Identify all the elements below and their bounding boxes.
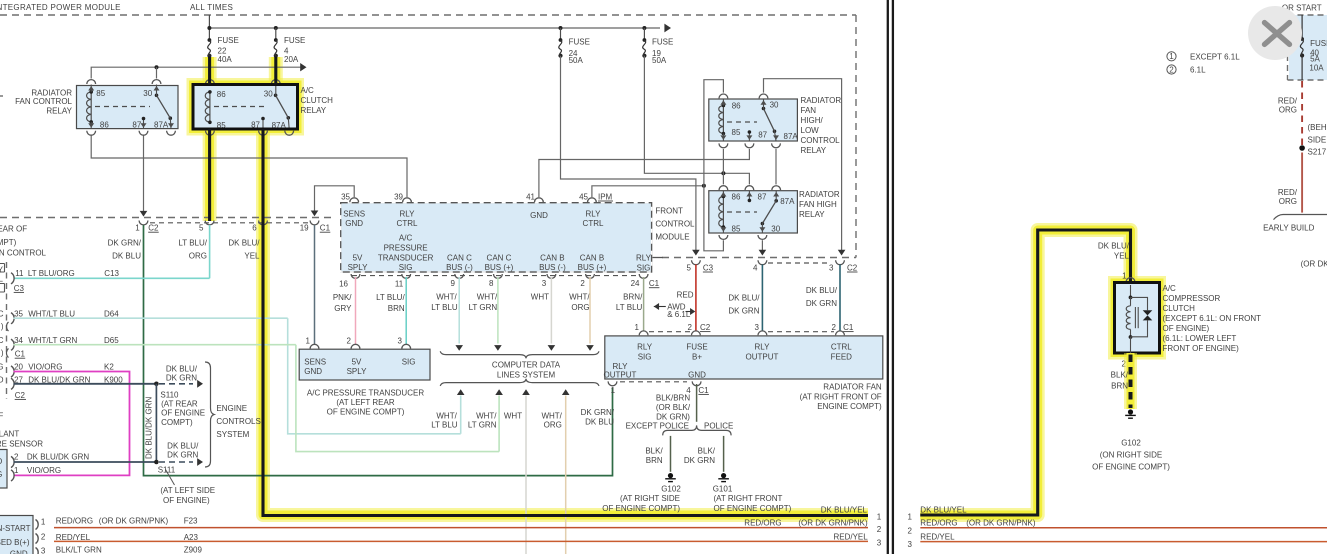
svg-text:GND: GND [345,219,363,228]
svg-text:LT BLU: LT BLU [431,303,458,312]
svg-text:SYSTEM: SYSTEM [216,430,249,439]
svg-text:N CONTROL: N CONTROL [0,249,47,258]
svg-text:87A: 87A [780,197,795,206]
svg-text:WHT/LT GRN: WHT/LT GRN [28,336,77,345]
svg-text:40A: 40A [218,55,233,64]
svg-text:RLY: RLY [400,209,416,218]
svg-text:(AT REAR: (AT REAR [161,400,198,409]
svg-text:RADIATOR: RADIATOR [801,96,842,105]
svg-text:WHT/: WHT/ [569,293,590,302]
svg-text:G102: G102 [661,484,681,493]
svg-text:RED/ORG: RED/ORG [920,519,957,528]
svg-text:11: 11 [395,280,404,289]
svg-text:PNK/: PNK/ [333,293,352,302]
svg-text:30: 30 [143,89,152,98]
svg-text:D65: D65 [104,336,119,345]
svg-text:3: 3 [908,540,913,549]
svg-text:C1: C1 [698,386,709,395]
svg-text:WHT/: WHT/ [476,412,497,421]
svg-text:GND: GND [10,550,28,554]
svg-text:C2: C2 [148,224,159,233]
svg-text:INTEGRATED POWER MODULE: INTEGRATED POWER MODULE [0,3,121,12]
svg-text:C1: C1 [649,279,660,288]
svg-text:1: 1 [14,466,19,475]
svg-text:3: 3 [41,547,46,554]
svg-text:BUS (+): BUS (+) [578,263,607,272]
svg-text:6.1L: 6.1L [1190,66,1206,75]
svg-text:2: 2 [41,533,46,542]
svg-text:DK GRN: DK GRN [806,299,837,308]
svg-text:RED/ORG: RED/ORG [744,519,781,528]
svg-text:35: 35 [341,192,350,201]
svg-text:35: 35 [14,309,23,318]
svg-text:RLY: RLY [755,342,771,351]
svg-text:16: 16 [339,280,348,289]
svg-text:8: 8 [489,279,494,288]
svg-text:LINES SYSTEM: LINES SYSTEM [497,370,556,379]
svg-text:LANT: LANT [0,429,19,438]
svg-text:RLY: RLY [637,342,653,351]
svg-text:OUTPUT: OUTPUT [746,352,779,361]
svg-text:DK BLU/DK GRN: DK BLU/DK GRN [27,452,89,461]
svg-text:COMPUTER DATA: COMPUTER DATA [492,360,561,369]
svg-text:EXCEPT 6.1L: EXCEPT 6.1L [1190,53,1240,62]
svg-text:87A: 87A [154,121,169,130]
svg-text:1: 1 [306,337,311,346]
svg-text:DK BLU/: DK BLU/ [806,286,838,295]
svg-text:LT BLU/: LT BLU/ [376,293,405,302]
svg-text:GND: GND [530,211,548,220]
svg-text:DK BLU/YEL: DK BLU/YEL [920,506,967,515]
svg-text:LOW: LOW [801,126,820,135]
svg-text:86: 86 [217,90,226,99]
svg-text:WHT/: WHT/ [436,412,457,421]
svg-text:CONTROL: CONTROL [801,136,841,145]
svg-text:LT BLU/: LT BLU/ [178,239,207,248]
svg-text:RELAY: RELAY [46,107,72,116]
svg-text:C2: C2 [847,263,858,272]
svg-text:RED/: RED/ [1278,97,1298,106]
svg-text:CAN B: CAN B [540,253,564,262]
svg-text:(AT RIGHT SIDE: (AT RIGHT SIDE [620,494,680,503]
svg-text:BRN: BRN [646,456,663,465]
svg-text:RELAY: RELAY [301,106,327,115]
svg-text:(BEHIND: (BEHIND [1308,123,1327,132]
svg-text:DK BLU: DK BLU [585,417,614,426]
svg-text:FRONT: FRONT [655,207,683,216]
svg-text:SENS: SENS [304,357,326,366]
svg-text:GND: GND [304,367,322,376]
svg-text:SPLY: SPLY [348,263,369,272]
svg-text:20A: 20A [284,55,299,64]
svg-text:WHT/: WHT/ [541,412,562,421]
svg-text:COMPRESSOR: COMPRESSOR [1163,294,1221,303]
svg-text:BLK/BRN: BLK/BRN [656,394,690,403]
svg-text:RED/: RED/ [1278,188,1298,197]
svg-text:2: 2 [347,337,352,346]
svg-text:CTRL: CTRL [397,219,418,228]
svg-text:GRY: GRY [334,304,352,313]
svg-text:BRN/: BRN/ [623,293,643,302]
svg-text:CLUTCH: CLUTCH [301,96,334,105]
svg-text:DK BLU/: DK BLU/ [728,294,760,303]
svg-text:S110: S110 [160,391,179,400]
svg-text:G102: G102 [1121,438,1141,447]
svg-text:FUSE: FUSE [569,38,590,47]
svg-text:ORG: ORG [571,303,589,312]
svg-text:K2: K2 [104,362,114,371]
svg-text:VIO/ORG: VIO/ORG [28,362,62,371]
svg-text:BUS (-): BUS (-) [446,263,473,272]
svg-text:CAN C: CAN C [487,253,512,262]
svg-text:G: G [0,470,2,479]
svg-text:SIG: SIG [399,263,413,272]
svg-text:FUSE: FUSE [1310,39,1327,48]
svg-text:1: 1 [908,513,913,522]
svg-text:DK GRN): DK GRN) [656,413,690,422]
svg-text:C2: C2 [700,323,711,332]
svg-text:ENGINE COMPT): ENGINE COMPT) [817,402,882,411]
svg-text:1: 1 [1169,52,1174,61]
svg-text:B+: B+ [692,352,702,361]
svg-text:FAN HIGH: FAN HIGH [799,200,837,209]
svg-text:DK BLU/: DK BLU/ [167,442,199,451]
svg-text:WHT/: WHT/ [436,293,457,302]
svg-text:LT BLU: LT BLU [616,303,643,312]
svg-text:A23: A23 [184,533,199,542]
svg-text:LT BLU/ORG: LT BLU/ORG [28,269,75,278]
svg-text:45: 45 [579,192,588,201]
svg-text:11: 11 [15,269,24,278]
svg-text:C1: C1 [843,323,854,332]
svg-text:87A: 87A [784,132,799,141]
svg-text:RE SENSOR: RE SENSOR [0,439,43,448]
svg-text:SENS: SENS [343,209,365,218]
svg-text:30: 30 [770,101,779,110]
svg-text:34: 34 [14,336,23,345]
svg-text:86: 86 [100,121,109,130]
svg-text:10A: 10A [1309,64,1324,73]
svg-text:RED/YEL: RED/YEL [920,533,955,542]
svg-text:Z909: Z909 [184,545,203,554]
svg-text:DK BLU/YEL: DK BLU/YEL [821,505,868,514]
svg-text:19: 19 [300,224,309,233]
svg-text:BLK/: BLK/ [1111,371,1129,380]
svg-text:RLY: RLY [586,209,602,218]
svg-text:5V: 5V [353,253,363,262]
svg-text:BLK/: BLK/ [698,447,716,456]
svg-text:LT BLU: LT BLU [431,421,458,430]
svg-text:RADIATOR FAN: RADIATOR FAN [823,383,882,392]
svg-text:POLICE: POLICE [704,422,733,431]
svg-text:ENGINE: ENGINE [216,404,247,413]
svg-text:CAN B: CAN B [580,253,604,262]
svg-text:(AT RIGHT FRONT: (AT RIGHT FRONT [714,494,783,503]
svg-text:RLY: RLY [636,253,652,262]
svg-text:2: 2 [908,526,913,535]
svg-text:D: D [0,457,3,466]
svg-text:RED/ORG: RED/ORG [56,517,93,526]
svg-text:(AT RIGHT FRONT OF: (AT RIGHT FRONT OF [800,393,882,402]
svg-text:): ) [1,349,4,358]
svg-text:2: 2 [877,525,882,534]
svg-text:3: 3 [542,279,547,288]
svg-text:C1: C1 [320,224,331,233]
svg-text:A/C: A/C [301,86,315,95]
svg-text:ALL TIMES: ALL TIMES [190,3,233,12]
svg-text:(OR DK GRN/PNK): (OR DK GRN/PNK) [99,517,169,526]
svg-text:RELAY: RELAY [799,210,825,219]
svg-text:DK GRN/: DK GRN/ [108,239,142,248]
svg-text:FUSE: FUSE [686,342,707,351]
svg-text:(AT LEFT SIDE: (AT LEFT SIDE [160,486,215,495]
svg-text:BUS (+): BUS (+) [485,263,514,272]
svg-text:DK GRN: DK GRN [166,373,197,382]
svg-text:30: 30 [771,224,780,233]
svg-text:DK GRN: DK GRN [728,307,759,316]
svg-text:ORG: ORG [1279,106,1297,115]
svg-text:5V: 5V [352,357,362,366]
svg-text:DK BLU/: DK BLU/ [166,364,198,373]
svg-text:87: 87 [132,121,141,130]
svg-text:C1: C1 [15,350,26,359]
svg-text:3: 3 [829,263,834,272]
svg-text:DK BLU: DK BLU [112,252,141,261]
svg-text:N-START: N-START [0,524,31,533]
svg-text:OF ENGINE COMPT): OF ENGINE COMPT) [602,504,680,513]
svg-text:FUSE: FUSE [218,36,239,45]
svg-text:(ON RIGHT SIDE: (ON RIGHT SIDE [1100,451,1163,460]
svg-text:DK GRN/: DK GRN/ [581,408,615,417]
svg-text:FRONT OF ENGINE): FRONT OF ENGINE) [1163,344,1240,353]
svg-text:CONTROL: CONTROL [655,220,695,229]
svg-text:CTRL: CTRL [831,342,852,351]
svg-text:4: 4 [753,263,758,272]
svg-text:20: 20 [14,362,23,371]
svg-text:HIGH/: HIGH/ [801,116,824,125]
svg-text:RADIATOR: RADIATOR [799,190,840,199]
svg-text:(OR DK GRN/PNK): (OR DK GRN/PNK) [798,519,868,528]
svg-text:ORG: ORG [544,421,562,430]
svg-text:(OR DK GRN/PNK): (OR DK GRN/PNK) [1301,260,1327,269]
svg-text:D64: D64 [104,309,119,318]
svg-text:WHT/: WHT/ [477,293,498,302]
svg-text:3: 3 [398,337,403,346]
svg-text:DK BLU/: DK BLU/ [1098,242,1130,251]
svg-text:DK GRN: DK GRN [167,451,198,460]
svg-text:C: C [0,309,4,318]
svg-text:CONTROLS: CONTROLS [216,417,260,426]
svg-text:C3: C3 [14,284,25,293]
svg-text:CLUTCH: CLUTCH [1163,304,1196,313]
svg-text:85: 85 [96,89,105,98]
svg-text:(6.1L: LOWER LEFT: (6.1L: LOWER LEFT [1163,334,1237,343]
svg-text:WHT: WHT [504,412,522,421]
svg-text:41: 41 [526,192,535,201]
svg-text:ORG: ORG [1279,197,1297,206]
svg-text:RELAY: RELAY [801,146,827,155]
svg-text:C2: C2 [15,391,26,400]
svg-text:A/C: A/C [399,233,413,242]
svg-text:F23: F23 [184,517,198,526]
svg-text:50A: 50A [569,56,584,65]
svg-text:85: 85 [732,224,741,233]
svg-text:C3: C3 [703,263,714,272]
svg-text:2: 2 [1169,65,1174,74]
svg-text:): ) [1,322,4,331]
svg-text:FAN CONTROL: FAN CONTROL [15,97,72,106]
svg-text:MODULE: MODULE [655,233,689,242]
svg-text:1: 1 [135,224,140,233]
svg-text:EAR OF: EAR OF [0,225,27,234]
svg-text:C13: C13 [104,269,119,278]
svg-text:LT GRN: LT GRN [469,303,498,312]
svg-text:BRN: BRN [388,304,405,313]
svg-text:2: 2 [14,452,19,461]
svg-text:CAN C: CAN C [447,253,472,262]
svg-text:SIG: SIG [402,357,416,366]
svg-text:(OR BLK/: (OR BLK/ [656,403,691,412]
svg-text:OUTPUT: OUTPUT [604,371,637,380]
svg-text:BLK/: BLK/ [645,447,663,456]
svg-text:WHT: WHT [531,293,549,302]
svg-text:ORG: ORG [189,252,207,261]
svg-text:OF ENGINE COMPT): OF ENGINE COMPT) [1092,463,1170,472]
svg-text:BRN: BRN [1111,382,1128,391]
svg-text:BUS (-): BUS (-) [539,263,566,272]
svg-text:SIG: SIG [637,264,651,273]
svg-text:86: 86 [732,193,741,202]
svg-text:2: 2 [580,279,585,288]
svg-text:VIO/ORG: VIO/ORG [27,466,61,475]
svg-text:COMPT): COMPT) [161,418,193,427]
svg-text:EARLY BUILD: EARLY BUILD [1263,224,1315,233]
svg-text:50A: 50A [652,56,667,65]
svg-text:OF ENGINE: OF ENGINE [161,409,205,418]
svg-text:39: 39 [394,192,403,201]
svg-text:OF ENGINE COMPT): OF ENGINE COMPT) [714,504,792,513]
svg-text:SIDE OF: SIDE OF [1308,136,1327,145]
svg-text:1: 1 [611,386,616,395]
svg-text:1: 1 [635,323,640,332]
svg-text:2: 2 [688,323,693,332]
svg-text:FAN: FAN [801,106,817,115]
svg-text:RED/YEL: RED/YEL [56,533,91,542]
svg-text:SPLY: SPLY [347,367,368,376]
svg-text:YEL: YEL [244,252,260,261]
svg-text:5A: 5A [1310,54,1320,63]
svg-text:S217: S217 [1308,148,1327,157]
svg-text:F: F [0,411,3,420]
svg-text:D: D [0,375,4,384]
svg-text:C: C [0,336,4,345]
svg-text:SED B(+): SED B(+) [0,538,30,547]
svg-text:2: 2 [832,323,837,332]
svg-text:A/C PRESSURE TRANSDUCER: A/C PRESSURE TRANSDUCER [307,388,424,397]
svg-text:FEED: FEED [831,352,853,361]
svg-text:S111: S111 [158,465,176,474]
svg-text:(OR DK GRN/PNK): (OR DK GRN/PNK) [966,519,1036,528]
svg-text:3: 3 [877,539,882,548]
svg-text:3: 3 [755,323,760,332]
svg-text:G: G [0,362,4,371]
svg-text:FUSE: FUSE [652,38,673,47]
svg-text:MPT): MPT) [0,238,17,247]
svg-text:1: 1 [41,518,46,527]
svg-text:FUSE: FUSE [284,36,305,45]
svg-text:1: 1 [877,513,882,522]
svg-text:IPM: IPM [598,192,613,201]
svg-text:TRANSDUCER: TRANSDUCER [378,253,434,262]
svg-text:85: 85 [732,128,741,137]
svg-text:(EXCEPT 6.1L: ON FRONT: (EXCEPT 6.1L: ON FRONT [1163,314,1262,323]
svg-text:EXCEPT POLICE: EXCEPT POLICE [626,422,689,431]
svg-text:SIG: SIG [638,352,652,361]
svg-text:87: 87 [758,193,767,202]
svg-text:87: 87 [758,131,767,140]
svg-text:WHT/LT BLU: WHT/LT BLU [28,309,75,318]
svg-text:86: 86 [732,102,741,111]
svg-text:CTRL: CTRL [583,219,604,228]
svg-text:G101: G101 [713,484,733,493]
svg-text:GND: GND [688,371,706,380]
svg-text:RED: RED [677,291,694,300]
svg-text:A/C: A/C [1163,284,1177,293]
svg-text:PRESSURE: PRESSURE [384,243,428,252]
svg-text:LT GRN: LT GRN [468,421,497,430]
svg-text:DK GRN: DK GRN [684,456,715,465]
svg-text:6: 6 [252,224,257,233]
svg-text:OF ENGINE): OF ENGINE) [1163,324,1210,333]
svg-text:(AT LEFT REAR: (AT LEFT REAR [336,398,394,407]
svg-text:YEL: YEL [1114,252,1130,261]
svg-text:5: 5 [687,263,692,272]
svg-text:24: 24 [631,279,640,288]
svg-text:BLK/LT GRN: BLK/LT GRN [56,545,102,554]
svg-text:9: 9 [451,279,456,288]
svg-text:5: 5 [199,224,204,233]
svg-text:OF ENGINE COMPT): OF ENGINE COMPT) [327,408,405,417]
svg-text:DK BLU/DK GRN: DK BLU/DK GRN [145,397,154,459]
svg-text:DK BLU/: DK BLU/ [228,239,260,248]
svg-text:OF ENGINE): OF ENGINE) [163,496,210,505]
svg-text:30: 30 [264,89,273,98]
svg-text:RED/YEL: RED/YEL [833,532,868,541]
